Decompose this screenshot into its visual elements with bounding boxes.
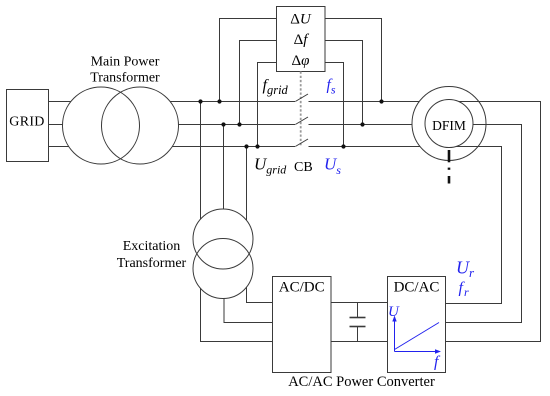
junction dot bus A excitation tap (198, 99, 202, 103)
junction dot bus C measurement left (255, 144, 259, 148)
transformer T2 Excitation Transformer (193, 209, 253, 299)
svg-text:Excitation: Excitation (123, 239, 181, 254)
box grid source GRID (7, 90, 49, 162)
graph axis arrowhead f (435, 349, 441, 353)
transformer T1 Main Power Transformer (63, 87, 179, 164)
wire phase C tap down to excitation transformer (246, 147, 248, 240)
wire measurement left tap phase A (220, 19, 277, 102)
svg-text:DC/AC: DC/AC (394, 280, 440, 296)
svg-text:U: U (388, 304, 400, 320)
svg-text:AC/AC Power Converter: AC/AC Power Converter (288, 374, 435, 390)
label Main Power Transformer (90, 55, 160, 86)
circuit breaker CB blade phase B (295, 117, 308, 125)
wire measurement right tap phase C (325, 63, 344, 147)
wire phase B tap down to excitation transformer (223, 125, 225, 240)
junction dot bus A measurement right (379, 99, 383, 103)
svg-text:DFIM: DFIM (432, 118, 466, 133)
wire excitation secondary to AC/DC input 2 (224, 269, 273, 323)
machine DFIM stator circle (412, 87, 486, 161)
capacitor C1 DC link (350, 303, 366, 342)
wire bus phase B left (grid to CB) (48, 124, 295, 126)
circuit breaker CB blade phase C (295, 139, 308, 147)
wire rotor phase C (DFIM to DC/AC) (445, 147, 502, 304)
svg-text:AC/DC: AC/DC (279, 280, 325, 296)
machine DFIM rotor circle (425, 100, 473, 148)
svg-text:Δf: Δf (294, 32, 310, 48)
svg-text:CB: CB (294, 160, 313, 175)
graph axis arrowhead U (392, 316, 396, 322)
junction dot bus B excitation tap (221, 122, 225, 126)
junction dot bus C measurement right (341, 144, 345, 148)
junction dot bus A measurement left (217, 99, 221, 103)
wire bus phase C right (CB to DFIM stator) (309, 146, 421, 148)
wire bus phase A right (CB to DFIM stator) (309, 101, 420, 103)
wire measurement right tap phase B (325, 41, 363, 125)
wire bus phase A left (grid to CB) (48, 101, 295, 103)
svg-text:Transformer: Transformer (117, 256, 187, 271)
wire phase A tap down to excitation transformer (200, 102, 202, 240)
wire excitation secondary to AC/DC input 3 (201, 269, 273, 342)
wire measurement right tap phase A (325, 19, 382, 102)
svg-text:Transformer: Transformer (90, 71, 160, 86)
wire bus phase C left (grid to CB) (48, 146, 295, 148)
svg-text:Main Power: Main Power (91, 55, 160, 70)
svg-text:ΔU: ΔU (290, 12, 312, 28)
wire DC link negative (331, 341, 388, 343)
svg-text:Δφ: Δφ (292, 53, 310, 69)
wire rotor phase A (DFIM to DC/AC) (445, 102, 541, 342)
circuit breaker CB control link (dashed) (300, 72, 302, 147)
label Excitation Transformer (117, 239, 187, 271)
circuit breaker CB blade phase A (295, 94, 308, 102)
wire rotor phase B (DFIM to DC/AC) (445, 125, 522, 323)
graph U(f) characteristic inside DC/AC (395, 320, 440, 352)
box measurement unit (dU df dphi) (277, 7, 326, 72)
junction dot bus B measurement left (237, 122, 241, 126)
svg-text:GRID: GRID (9, 115, 44, 130)
wire measurement left tap phase C (258, 63, 277, 147)
box converter AC/DC (273, 277, 332, 373)
box converter DC/AC (388, 277, 446, 373)
junction dot bus B measurement right (360, 122, 364, 126)
wire bus phase B right (CB to DFIM stator) (309, 124, 413, 126)
wire excitation secondary to AC/DC input 1 (247, 269, 273, 303)
shaft of DFIM (dash-dot) (448, 150, 451, 184)
wire DC link positive (331, 302, 388, 304)
wire measurement left tap phase B (240, 41, 277, 125)
junction dot bus C excitation tap (244, 144, 248, 148)
